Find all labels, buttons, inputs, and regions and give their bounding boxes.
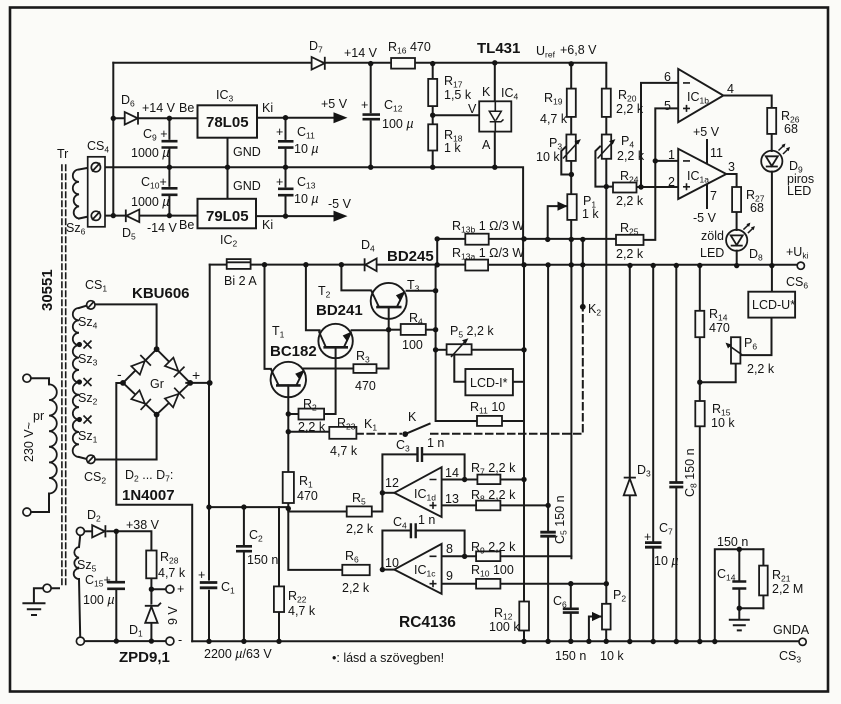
- svg-text:Gr: Gr: [150, 377, 164, 391]
- svg-text:RC4136: RC4136: [399, 614, 456, 631]
- transformer winding Sz5: [74, 547, 79, 579]
- svg-text:GNDA: GNDA: [773, 623, 810, 637]
- wire D2 anode link: [85, 530, 92, 532]
- connector CS4 bottom terminal: [91, 211, 100, 220]
- transformer primary winding pr: [49, 384, 57, 493]
- wire top +14V rail: [113, 62, 606, 64]
- wire CS1 to bridge top: [95, 304, 157, 349]
- capacitor C3: [418, 447, 423, 462]
- wire IC1b output to R26: [723, 96, 771, 108]
- svg-text:Ki: Ki: [262, 218, 273, 232]
- LCD-U* box: [748, 292, 795, 318]
- potentiometer P5: [447, 344, 472, 354]
- wire C14 R21 bottom link: [739, 607, 763, 609]
- wire pin1 stub: [655, 160, 678, 162]
- wire D5 net CS4 bottom to IC2 Be: [96, 215, 198, 217]
- svg-text:5: 5: [664, 99, 671, 113]
- wire P6 wiper to LCD-U: [742, 318, 772, 356]
- svg-text:Be: Be: [179, 101, 194, 115]
- potentiometer P4: [602, 135, 611, 159]
- wire primary top lead: [31, 378, 49, 384]
- svg-text:-: -: [117, 366, 122, 382]
- svg-text:2,2 k: 2,2 k: [747, 362, 775, 376]
- wire C6 branch: [570, 584, 572, 642]
- svg-text:R16 470: R16 470: [388, 40, 431, 56]
- svg-text:10 µ: 10 µ: [294, 192, 319, 206]
- terminal shield: [43, 584, 51, 592]
- wire R17 R18 junction to IC4 V pin: [433, 114, 480, 116]
- potentiometer P6 wiper arrow: [726, 343, 743, 355]
- wire C9 C10 column: [168, 118, 170, 215]
- potentiometer P3 wiper arrow: [563, 139, 581, 158]
- wire T2 emitter to R2 right: [324, 347, 336, 414]
- wire R21 leg: [762, 549, 764, 608]
- svg-text:470: 470: [297, 489, 318, 503]
- resistor R25: [616, 235, 644, 245]
- wire P4 R24 down column through rail to P2: [605, 187, 607, 604]
- LED D8 zold: [726, 223, 755, 251]
- svg-text:LCD-U*: LCD-U*: [752, 298, 795, 312]
- wire D3 branch: [629, 266, 631, 642]
- svg-text:+14 V: +14 V: [344, 46, 378, 60]
- svg-text:LED: LED: [787, 184, 811, 198]
- svg-text:+: +: [192, 367, 200, 383]
- svg-text:4,7 k: 4,7 k: [330, 444, 358, 458]
- bridge diode bottom-right: [165, 394, 179, 407]
- svg-text:4,7 k: 4,7 k: [540, 112, 568, 126]
- wire P2 bottom: [605, 630, 607, 642]
- wire T2 base column: [306, 265, 320, 331]
- svg-text:A: A: [482, 138, 491, 152]
- resistor R12: [519, 602, 529, 631]
- svg-text:11: 11: [710, 146, 723, 160]
- wire Sz6 bottom lead to CS4: [79, 216, 92, 219]
- svg-text:1 n: 1 n: [418, 513, 435, 527]
- wire main output rail bridge to CS6: [210, 264, 799, 266]
- resistor R16: [391, 58, 415, 69]
- svg-text:6: 6: [664, 70, 671, 84]
- svg-text:+: +: [276, 125, 283, 139]
- bridge diode top-right: [165, 358, 178, 371]
- svg-text:2,2 k: 2,2 k: [342, 581, 370, 595]
- svg-text:+: +: [644, 530, 651, 544]
- junction dots P3 P4 wiper: [569, 172, 574, 177]
- capacitor C14: [732, 582, 746, 589]
- wire R7 right to x524: [500, 479, 524, 481]
- svg-text:+: +: [198, 568, 205, 582]
- diode D5: [126, 210, 139, 223]
- terminal CS6: [797, 262, 804, 269]
- svg-text:2,2 k: 2,2 k: [616, 194, 644, 208]
- svg-text:C5 150 n: C5 150 n: [553, 495, 569, 544]
- wire LCD-I left lead: [454, 354, 465, 382]
- svg-text:4,7 k: 4,7 k: [158, 566, 186, 580]
- svg-text:TL431: TL431: [477, 40, 520, 57]
- wire raw plus bus: [209, 506, 288, 508]
- junction dots C11 C13: [283, 115, 288, 120]
- wire T2 collector to R4 node: [352, 329, 389, 331]
- svg-text:-5 V: -5 V: [693, 211, 717, 225]
- resistor R10: [476, 579, 500, 589]
- svg-text:LCD-I*: LCD-I*: [470, 376, 508, 390]
- wire Sz4 top lead to CS1: [79, 306, 87, 309]
- zener diode D1 ZPD9.1: [145, 607, 157, 623]
- wire Sz6 top lead to CS4: [79, 167, 92, 169]
- wire T3 base column: [341, 265, 370, 291]
- svg-text:+: +: [276, 175, 283, 189]
- wire R22 column: [278, 507, 280, 641]
- junction dots left column: [111, 116, 116, 121]
- svg-text:1N4007: 1N4007: [122, 487, 175, 504]
- resistor R22: [274, 586, 284, 612]
- wire T1 base column: [265, 265, 271, 369]
- svg-text:R7 2,2 k: R7 2,2 k: [471, 461, 516, 477]
- wire IC1c pin8 R9: [442, 555, 572, 557]
- wire IC1a pin7 -5V stub: [706, 185, 708, 208]
- junction dots C9 C10: [167, 116, 172, 121]
- wire T3 emitter: [388, 307, 390, 330]
- transistor T1 BC182: [271, 362, 306, 397]
- wire R11 right link: [502, 420, 524, 422]
- resistor R13a: [465, 260, 488, 271]
- svg-text:K: K: [408, 410, 417, 424]
- wire C12 column: [370, 64, 372, 168]
- resistor R27: [732, 187, 741, 212]
- transistor T3 BD245: [371, 283, 407, 319]
- svg-text:8: 8: [446, 542, 453, 556]
- wire IC3 out +5V: [257, 117, 335, 119]
- wire aux bottom line D1 C15: [85, 640, 166, 642]
- wire IC1a pin11 +5V stub: [706, 140, 708, 163]
- wire aux plus terminal link: [151, 588, 165, 590]
- transformer core dashed lines: [62, 165, 66, 588]
- svg-text:10 µ: 10 µ: [294, 142, 319, 156]
- svg-text:13: 13: [445, 492, 459, 506]
- junction dots C12 R18 IC4 mid rail: [368, 165, 373, 170]
- wire IC4 anode: [494, 132, 496, 168]
- wire C3 feedback loop: [382, 454, 464, 492]
- wire R27 to D8: [736, 212, 738, 230]
- op-amp IC1c: [394, 544, 441, 594]
- wire pin6 vertical: [641, 83, 678, 187]
- diode D7: [312, 57, 325, 70]
- svg-text:68: 68: [750, 201, 764, 215]
- wire GNDA bottom rail: [192, 640, 800, 642]
- svg-text:2200 µ/63 V: 2200 µ/63 V: [204, 647, 272, 661]
- capacitor C7: [645, 543, 662, 548]
- wire C14 ground stem: [738, 608, 740, 619]
- wire P2 wiper leg: [589, 617, 602, 642]
- wire D9 to +Uki rail: [771, 172, 773, 266]
- wire C11 column: [285, 118, 287, 167]
- potentiometer P2 wiper arrow: [592, 612, 602, 621]
- wire R23 left link: [288, 431, 329, 433]
- svg-text:78L05: 78L05: [206, 114, 249, 131]
- svg-text:100: 100: [402, 338, 423, 352]
- wire bridge plus lead: [186, 382, 209, 384]
- potentiometer P4 wiper arrow: [598, 139, 616, 158]
- svg-text:150 n: 150 n: [247, 553, 278, 567]
- wire IC1c output pin10: [382, 569, 394, 571]
- wire P6 top from R14 node? none; P6 bottom jog: [700, 364, 736, 383]
- bridge diode bottom-left: [131, 390, 145, 403]
- svg-text:9 V: 9 V: [166, 606, 180, 625]
- resistor R1: [283, 472, 294, 503]
- svg-text:GND: GND: [233, 145, 261, 159]
- wire C15 column: [115, 531, 117, 641]
- wire left raw column: [112, 63, 114, 216]
- svg-text:-5 V: -5 V: [328, 197, 352, 211]
- svg-text:1 k: 1 k: [444, 141, 461, 155]
- svg-text:•: lásd a szövegben!: •: lásd a szövegben!: [332, 651, 444, 665]
- svg-text:2,2 k: 2,2 k: [616, 102, 644, 116]
- resistor R9: [476, 551, 500, 561]
- IC4 TL431 box: [479, 101, 511, 131]
- wire right column rail to R11: [436, 265, 477, 421]
- svg-text:+: +: [177, 582, 184, 596]
- LCD-I* box: [465, 369, 513, 395]
- svg-text:ZPD9,1: ZPD9,1: [119, 649, 170, 666]
- capacitor C9: [162, 140, 178, 149]
- wire D2 cathode +38V node: [108, 531, 152, 550]
- svg-text:2,2 k: 2,2 k: [616, 247, 644, 261]
- terminal D2 anode: [76, 527, 84, 535]
- capacitor C11: [278, 140, 294, 149]
- svg-text:+: +: [361, 98, 368, 112]
- resistor R20: [602, 89, 611, 117]
- resistor R23: [329, 427, 356, 439]
- capacitor C2: [236, 546, 252, 551]
- terminal mains bottom: [23, 508, 31, 516]
- wire IC1d output pin12: [382, 492, 394, 494]
- svg-text:P5 2,2 k: P5 2,2 k: [450, 324, 494, 340]
- svg-text:1000 µ: 1000 µ: [131, 146, 169, 160]
- ground GNDA symbol at C14: [729, 620, 750, 631]
- svg-text:1 k: 1 k: [582, 207, 599, 221]
- svg-text:2: 2: [668, 175, 675, 189]
- wire C8 branch: [675, 266, 677, 642]
- wire R1 bottom to raw bus: [287, 503, 289, 507]
- svg-text:LED: LED: [700, 246, 724, 260]
- junction dots op-amp feedback: [380, 490, 385, 495]
- wire P1 wiper bracket: [548, 206, 568, 239]
- bridge diode top-left: [131, 361, 144, 375]
- svg-text:K: K: [482, 85, 491, 99]
- svg-text:3: 3: [728, 160, 735, 174]
- wire T3 collector to right column: [407, 290, 436, 292]
- svg-text:+5 V: +5 V: [321, 97, 348, 111]
- wire R2 left link: [288, 413, 298, 415]
- wire IC1c pin9 R10: [442, 583, 607, 585]
- transformer secondary winding Sz4 Sz3 Sz2 Sz1: [73, 308, 79, 457]
- winding tap dots: [77, 342, 82, 347]
- wire Sz5 top lead to D2 terminal: [79, 536, 80, 548]
- wire R4 left link: [389, 329, 401, 331]
- resistor R21: [759, 566, 768, 596]
- terminal CS3: [799, 638, 806, 645]
- resistor R2: [299, 409, 325, 420]
- junction dots R13 links: [435, 236, 440, 241]
- svg-text:230 V~: 230 V~: [22, 422, 36, 462]
- capacitor C6: [563, 609, 579, 613]
- svg-text:-14 V: -14 V: [147, 221, 178, 235]
- wire C13 column: [285, 167, 287, 216]
- LED D9 piros: [761, 144, 790, 172]
- terminal aux plus: [166, 585, 174, 593]
- svg-text:C8 150 n: C8 150 n: [683, 448, 699, 497]
- wire P3 wiper bracket: [561, 147, 571, 175]
- potentiometer P6: [731, 337, 740, 363]
- svg-text:7: 7: [710, 189, 717, 203]
- resistor R5: [347, 506, 372, 516]
- terminal aux minus: [166, 637, 174, 645]
- svg-text:10 k: 10 k: [711, 416, 735, 430]
- wire Sz5 bottom lead: [79, 579, 80, 637]
- terminal aux bottom left: [76, 637, 84, 645]
- svg-text:470: 470: [709, 321, 730, 335]
- svg-text:R10 100: R10 100: [471, 563, 514, 579]
- wire C2 column: [243, 507, 245, 641]
- svg-text:Bi 2 A: Bi 2 A: [224, 274, 257, 288]
- junction dots aux supply: [114, 529, 119, 534]
- svg-text:1,5 k: 1,5 k: [444, 88, 472, 102]
- wire C14 150n top link: [715, 549, 764, 641]
- winding tap X marks: [84, 341, 92, 349]
- wire R6 feed riser: [288, 512, 342, 570]
- terminal CS1: [87, 301, 95, 309]
- junction dots GNDA rail: [206, 639, 211, 644]
- wire IC1d pin14: [442, 479, 478, 481]
- wire C5 branch: [547, 265, 549, 641]
- wire R26 to D9: [771, 134, 773, 151]
- resistor R19: [567, 89, 576, 117]
- svg-text:12: 12: [385, 476, 399, 490]
- svg-text:1: 1: [668, 148, 675, 162]
- wire IC4 cathode: [494, 63, 496, 102]
- svg-text:R8 2,2 k: R8 2,2 k: [471, 488, 516, 504]
- wire D6 net to IC3 Be: [113, 117, 197, 119]
- wire IC2 out -5V: [256, 215, 335, 217]
- resistor R26: [767, 108, 776, 134]
- resistor R8: [476, 501, 500, 511]
- resistor R6: [342, 565, 369, 575]
- wire R9 net riser to output rail: [570, 265, 572, 558]
- wire CS2 to bridge bottom: [94, 415, 157, 460]
- svg-text:470: 470: [355, 379, 376, 393]
- resistor R28: [146, 551, 156, 579]
- wire Sz1 bottom lead to CS2: [79, 457, 88, 459]
- wire R25 right to pin5 vertical: [644, 108, 679, 240]
- resistor R13b: [465, 234, 488, 245]
- junction dots bridge: [154, 346, 160, 352]
- svg-text:pr: pr: [33, 409, 44, 423]
- wire bridge minus path: [116, 383, 192, 641]
- svg-text:30551: 30551: [39, 269, 56, 311]
- potentiometer P2: [602, 604, 611, 630]
- ground earth symbol mains: [22, 603, 45, 615]
- svg-text:150 n: 150 n: [555, 649, 586, 663]
- resistor R4: [401, 324, 426, 335]
- svg-text:4,7 k: 4,7 k: [288, 604, 316, 618]
- wire T1 right to R3: [304, 368, 354, 370]
- wire R24 right to pin2 pin6 vertical: [637, 186, 679, 188]
- diode D3: [624, 479, 636, 496]
- svg-text:2,2 M: 2,2 M: [772, 582, 803, 596]
- svg-text:BD245: BD245: [387, 248, 434, 265]
- resistor R11: [477, 416, 502, 426]
- capacitor C15: [107, 582, 125, 589]
- wire LCD-U top lead: [771, 266, 773, 292]
- wire IC1a output to R27: [726, 174, 736, 187]
- wire IC1d pin13 R8: [442, 504, 548, 506]
- resistor R3: [353, 364, 376, 373]
- svg-text:2,2 k: 2,2 k: [617, 149, 645, 163]
- wire IC3 GND stub: [227, 138, 229, 198]
- svg-text:10 k: 10 k: [600, 649, 624, 663]
- svg-text:79L05: 79L05: [206, 208, 249, 225]
- wire R13b left link: [437, 239, 465, 265]
- svg-text:10 k: 10 k: [536, 150, 560, 164]
- wire R3 right to R4 node: [377, 330, 389, 369]
- svg-text:100 µ: 100 µ: [83, 593, 115, 607]
- capacitor C8: [669, 483, 683, 488]
- svg-text:1 n: 1 n: [427, 436, 444, 450]
- wire R4 right to collector column: [426, 329, 436, 331]
- svg-text:R9 2,2 k: R9 2,2 k: [471, 540, 516, 556]
- wire K2 link solid upper: [582, 239, 584, 307]
- terminal CS2: [87, 455, 95, 463]
- svg-text:10: 10: [385, 556, 399, 570]
- resistor R14: [695, 311, 704, 337]
- svg-text:100 µ: 100 µ: [382, 117, 414, 131]
- IC3 regulator 78L05 box: [198, 105, 258, 137]
- junction dot K2: [580, 304, 586, 310]
- svg-text:V: V: [468, 102, 477, 116]
- svg-text:2,2 k: 2,2 k: [346, 522, 374, 536]
- junction dots sense line: [521, 236, 526, 241]
- svg-text:+6,8 V: +6,8 V: [560, 43, 597, 57]
- capacitor C1: [200, 581, 218, 590]
- junction dots P5: [433, 347, 438, 352]
- wire C14 leg: [738, 549, 740, 608]
- wire C4 feedback loop: [382, 531, 464, 570]
- svg-text:Ki: Ki: [262, 101, 273, 115]
- junction dot K pivot: [402, 431, 408, 437]
- wire C7 branch: [652, 266, 654, 642]
- junction dots T1 emitter chain: [286, 411, 291, 416]
- diode D4: [365, 259, 376, 272]
- fuse Bi 2A: [227, 259, 251, 269]
- svg-text:R11 10: R11 10: [470, 400, 505, 416]
- transformer Tr secondary winding Sz6: [73, 170, 79, 219]
- wire x524 column mid rail to GNDA rail: [523, 265, 525, 642]
- resistor R17: [428, 79, 437, 106]
- capacitor C12: [363, 113, 381, 120]
- wire D8 to +Uki rail: [736, 251, 738, 266]
- junction dots R14 P6 C14: [697, 380, 702, 385]
- resistor R15: [695, 401, 704, 426]
- diode D6: [125, 112, 138, 125]
- junction dots top rail: [368, 61, 373, 66]
- svg-text:4: 4: [727, 82, 734, 96]
- svg-text:+14 V: +14 V: [142, 101, 176, 115]
- svg-text:Tr: Tr: [57, 147, 68, 161]
- wire primary bottom lead: [31, 494, 49, 513]
- arrow -5V supply: [334, 211, 348, 222]
- diode D2: [92, 525, 105, 537]
- svg-text:2,2 k: 2,2 k: [298, 420, 326, 434]
- capacitor C5: [540, 532, 556, 536]
